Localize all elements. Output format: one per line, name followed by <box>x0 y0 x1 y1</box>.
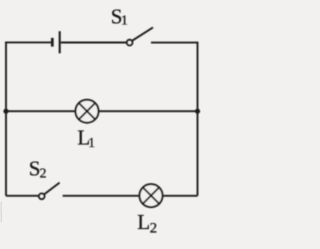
switch S1 lever <box>132 27 153 40</box>
wire battery to S1 <box>61 42 127 44</box>
battery negative plate (short) <box>51 38 54 47</box>
lamp L2 <box>140 184 163 207</box>
label S1 <box>111 5 128 29</box>
switch S1 pivot circle <box>127 40 133 46</box>
wire top left (to battery) <box>5 41 51 43</box>
switch S2 lever <box>44 183 60 195</box>
svg-text:1: 1 <box>88 135 95 150</box>
wire left vertical <box>5 42 7 195</box>
wire S1 to top-right corner <box>151 42 198 44</box>
svg-text:1: 1 <box>121 12 128 27</box>
junction node right <box>195 109 200 114</box>
svg-text:2: 2 <box>40 167 47 182</box>
stray page mark at left edge <box>0 202 3 222</box>
wire bottom left (to S2) <box>6 195 39 197</box>
svg-text:2: 2 <box>150 220 158 236</box>
battery positive plate (long) <box>59 31 61 53</box>
wire right vertical <box>197 42 199 196</box>
label L2 <box>137 210 157 236</box>
label L1 <box>77 126 95 150</box>
label S2 <box>29 156 47 181</box>
svg-text:L: L <box>137 210 150 234</box>
lamp L1 <box>76 100 99 123</box>
wire S2 to bottom-right corner <box>63 195 198 197</box>
switch S2 pivot circle <box>39 193 45 199</box>
wire middle branch <box>6 110 198 112</box>
junction node left <box>3 109 8 114</box>
